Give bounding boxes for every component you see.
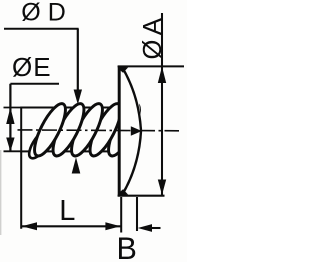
thread twist ellipse 3 — [47, 100, 89, 160]
head corner ink pools — [119, 66, 128, 73]
dim D: leader vertical — [77, 29, 79, 91]
dim A: down arrow — [158, 180, 166, 196]
screw head fill (clips threads) — [119, 66, 142, 197]
center line (dash-dot axis) — [18, 129, 180, 132]
head convex face arc — [123, 68, 142, 194]
thread twist ellipse 0 (behind first) — [25, 124, 57, 162]
dim E: top extension — [4, 107, 22, 109]
svg-text:Ø D: Ø D — [21, 0, 65, 27]
svg-text:B: B — [117, 230, 137, 262]
dim A: vertical dimension line — [161, 13, 163, 195]
dim E: down arrow — [6, 138, 14, 152]
dim A: up arrow — [158, 67, 166, 84]
dim D: upper arrow (down) — [74, 90, 82, 105]
svg-text:ØA: ØA — [139, 14, 167, 60]
thread twist ellipse 1 (front) — [29, 100, 71, 160]
head bottom edge + OA bottom extension line — [118, 195, 165, 197]
dim E: leader horizontal — [10, 83, 59, 85]
black cusp arrow on head face (center) — [131, 126, 142, 136]
dim L: left arrow — [22, 222, 37, 230]
svg-text:ØE: ØE — [12, 52, 52, 82]
dim E: bottom extension — [4, 150, 22, 152]
thread twist ellipse 4 — [66, 100, 108, 160]
dim B: right arrow (points left) — [138, 224, 152, 232]
dim E: up arrow — [6, 107, 14, 124]
head flat left face — [118, 66, 121, 196]
dim L: right arrow — [105, 222, 120, 230]
svg-text:L: L — [59, 195, 75, 227]
head top edge + OA top extension line — [118, 65, 184, 67]
dim B: right tail — [150, 227, 161, 229]
thread twist ellipse (hidden under head) — [103, 100, 145, 160]
shank (screw body core) — [21, 108, 119, 152]
scan edge smudge — [0, 150, 1, 235]
dim L: extension line — [20, 151, 22, 228]
dim D: leader horizontal — [4, 28, 79, 30]
thread twist ellipse 5 — [84, 100, 126, 160]
dim B: left extension — [120, 197, 122, 233]
dim E: vertical dimension line — [9, 84, 11, 151]
dim L: dimension line — [21, 225, 121, 227]
dim D: lower arrow (up) — [72, 157, 81, 173]
dim B: right extension — [136, 197, 138, 231]
